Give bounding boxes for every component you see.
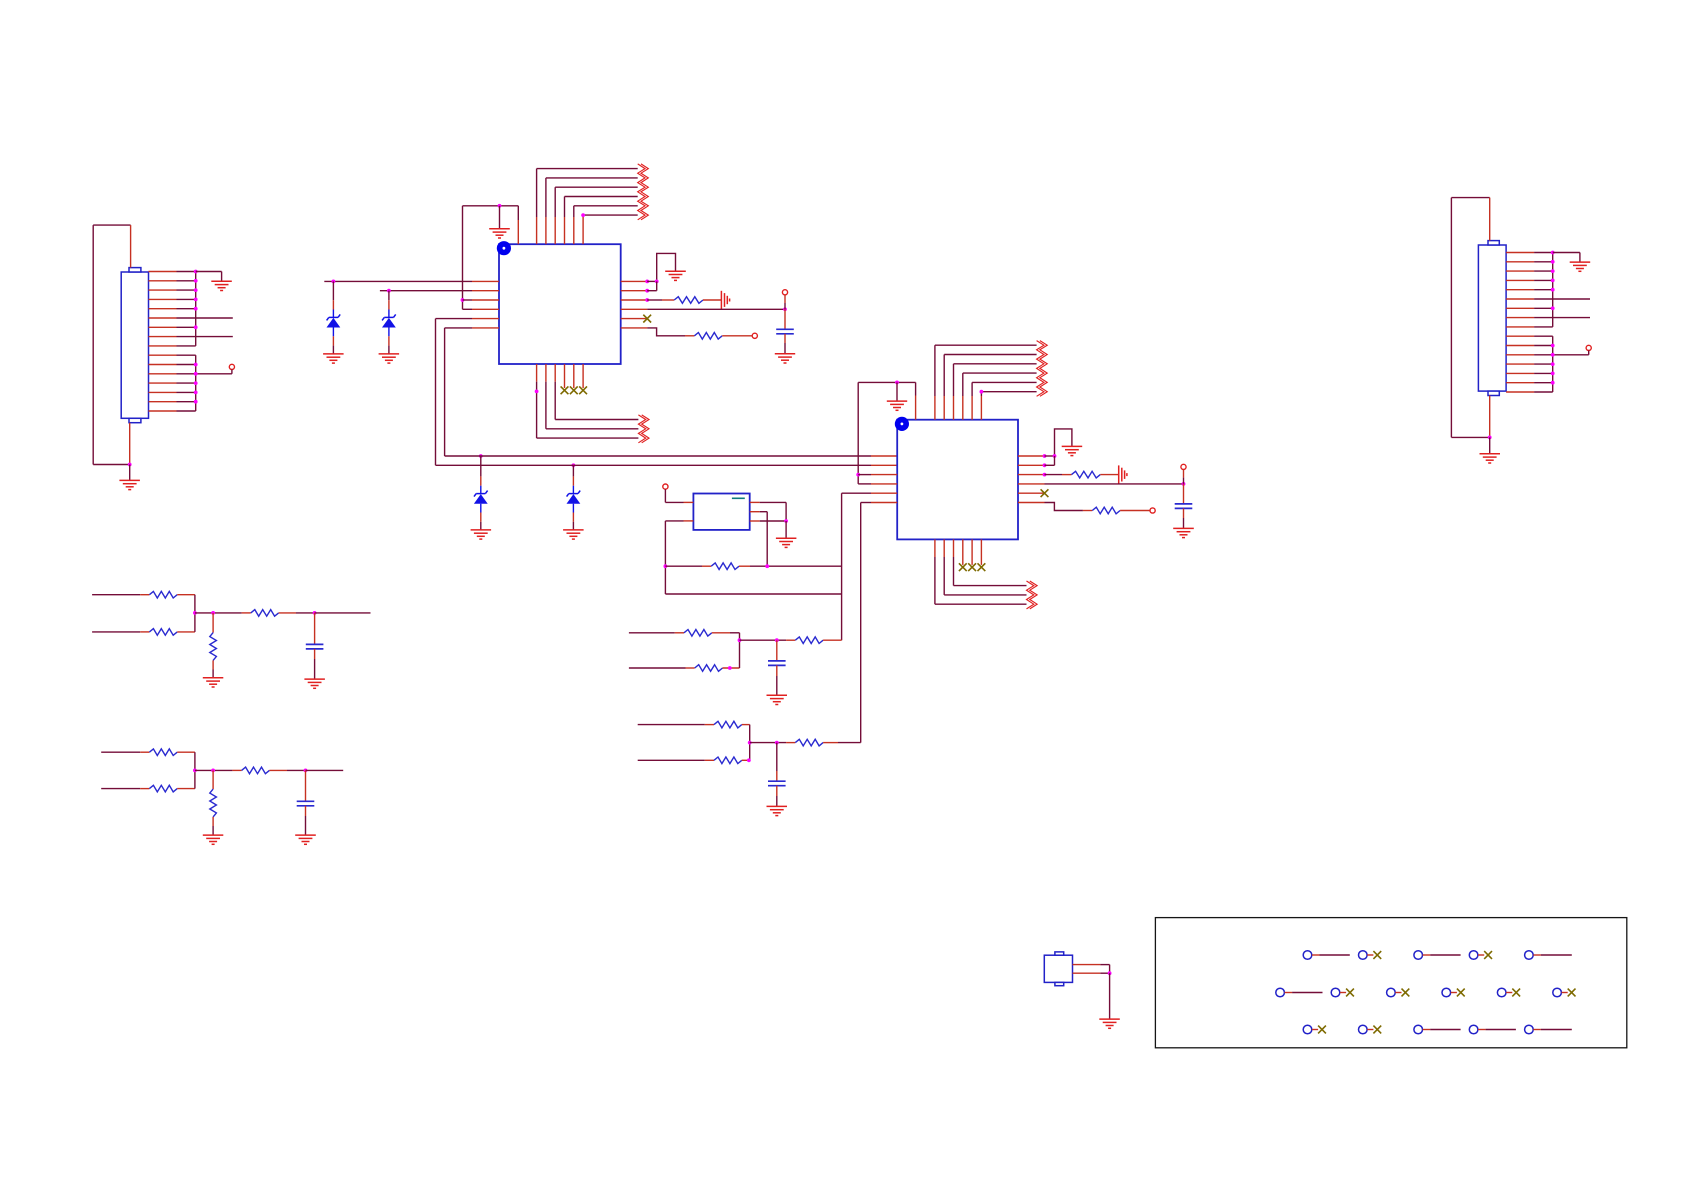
wire U2.R4 up [1183,470,1185,484]
no-connect TP9 [1451,989,1465,997]
node U2.R1 b [1053,454,1057,458]
pin J2.12 [1506,354,1534,356]
wire R2 to terminal [722,335,752,337]
pin U1 right3 [621,299,648,301]
wire C1 to ground [784,334,786,354]
wire J2.5 [1534,289,1553,291]
wire U2.R6 to R4 [1045,503,1093,511]
wire J2.4 [1534,279,1553,281]
pin U1 bottom5 [573,364,575,388]
testpoint TP3 [1414,951,1423,960]
node netC junction [193,611,197,615]
pin J2.16 [1506,391,1534,393]
pin U2 right2 [1018,464,1045,466]
pin U2 top7 wire [981,392,1036,420]
wire netD in1 [101,751,149,753]
pin J1.9 [149,345,177,347]
pin U2 bottom5 [971,539,973,565]
terminal U3 open circle [663,484,668,489]
wire D1 top [332,281,334,317]
pin J1.10 [149,354,177,356]
wire CB to ground [776,786,778,807]
wire U1.R4 up [784,295,786,309]
testpoint TP7 [1331,988,1340,997]
torn wire U1 top group [638,164,649,220]
wire J1.15 [177,401,196,403]
pin U2 right5 [1018,492,1045,494]
pin U4.2 [1073,972,1101,974]
node J1 group2 pin12 [194,372,198,376]
wire netC in1 [92,594,149,596]
capacitor CA [768,661,786,666]
no-connect U2 bottom4 [959,563,967,571]
pin U1 top7 wire [583,215,638,244]
wire bus lower [436,464,898,466]
wire R4 to terminal [1120,510,1150,512]
pin U1 left6 [472,327,499,329]
connector J2 body [1478,245,1506,391]
node D4 [572,463,576,467]
connector J1 top tab [129,268,141,272]
pin J1.15 [149,401,177,403]
wire RC1 out [177,595,195,613]
wire netA cap stem [776,640,778,661]
wire J2.1 [1534,252,1553,254]
wire J2.12 to test terminal [1534,354,1589,356]
IC U2 body [897,420,1018,540]
wire netB in1 [638,724,714,726]
resistor RC2 [149,629,177,636]
ground J1 pin1 [211,281,232,290]
earth U2.R3 sideways [1119,465,1127,484]
wire TP3-TP4 [1423,954,1461,956]
IC U1 body [499,244,621,364]
wire D4 bottom [572,504,574,530]
pin U1 left1 [472,280,499,282]
wire RA3 out [823,639,842,641]
testpoint TP12 [1303,1025,1312,1034]
wire U2.R1 to ground [1045,429,1072,456]
pin U1 left3 [472,299,499,301]
pin J1.3 [149,289,177,291]
pin U2 bottom4 [962,539,964,565]
wire TP16 out [1533,1029,1572,1031]
pin U2 bottom6 [980,539,982,565]
pin U2 right6 [1018,502,1045,504]
node U2.R4 [1182,482,1186,486]
zener diode D3 [474,491,488,504]
wire netC cap stem [314,613,316,645]
wire U1.L2 from zener D2 [380,290,472,292]
testpoint TP14 [1414,1025,1423,1034]
node U1 gnd [498,204,502,208]
wire U3.3 [760,502,786,521]
wire J2.6 stub [1534,298,1590,300]
wire RD4 top [212,770,214,789]
node J2 group2 pin13 [1551,362,1555,366]
zener diode D2 [382,314,396,327]
node U2 top wire corner [980,390,984,394]
wire RA2 out [723,640,740,668]
capacitor C1 [776,329,794,334]
node U2.R3 [1043,473,1047,477]
pin J1.12 [149,373,177,375]
wire U2.R2 [1045,456,1055,465]
component U4 body [1044,955,1072,982]
node netB cap tap [775,741,779,745]
node D3 [479,454,483,458]
pin J2.10 [1506,335,1534,337]
no-connect U1.R5 [643,315,651,323]
zener diode D1 [327,314,341,327]
pin J2.2 [1506,261,1534,263]
ground D3 [471,530,492,539]
zener diode D4 [567,491,581,504]
wire netC in2 [92,631,149,633]
resistor R2 [694,333,722,340]
wire U4.1 [1100,965,1109,974]
wire RC2 out [177,613,195,632]
node U1.R1 a [645,280,649,284]
terminal U2.R4 open circle [1181,464,1186,469]
node netC cap tap [313,611,317,615]
no-connect TP4 [1478,951,1492,959]
wire U3 gnd stem [785,521,787,538]
pin U3.5 bottom right [750,520,760,522]
wire R5 left [665,565,711,567]
testpoint TP16 [1525,1025,1534,1034]
node J2 shield junction [1488,436,1492,440]
wire U2.R4 down [1183,484,1185,504]
wire J1.9 [177,345,196,347]
wire U2.L4 [858,483,871,485]
ground C1 [775,354,795,363]
wire U2.L6 [861,503,871,743]
component U4 top tab [1055,952,1064,955]
pin U1 left2 [472,290,499,292]
wire D3 top [480,456,482,494]
pin U1 right1 [621,280,648,282]
torn wire U2 top group [1037,341,1048,397]
wire C2 to ground [1183,508,1185,528]
torn wire U1 bottom group [638,415,649,443]
wire J1 bus group2 [195,355,197,411]
torn wire U2 bottom group [1027,581,1038,609]
pin U2 top2 wire [935,345,1037,420]
no-connect U2 bottom6 [978,563,986,571]
capacitor CB [768,781,786,786]
resistor RA3 [795,637,823,644]
node J1 group1 pin2 [194,279,198,283]
node J2 group1 pin4 [1551,279,1555,283]
node netB resistor2 [747,758,751,762]
wire U2 gnd left drop [857,382,859,484]
wire RC3 out [279,612,315,614]
pin J1.1 [149,271,177,273]
pin J2.7 [1506,307,1534,309]
node netD junction [193,769,197,773]
pin U1 left5 [472,318,499,320]
resistor R4 [1092,507,1120,514]
wire netC out [315,612,371,614]
pin U3.4 mid right [750,511,760,513]
IC U1 pin1 mark [497,241,511,255]
node netA cap tap [775,638,779,642]
resistor RD2 [149,785,177,792]
pin U2 top6 wire [972,382,1037,419]
wire netA in2 [629,667,695,669]
wire CA to ground [776,665,778,695]
wire U3.2 bottom [665,593,841,595]
ground RC4 [203,678,224,687]
wire J1.16 [177,410,196,412]
ground CA [767,695,788,704]
wire J1.11 [177,364,196,366]
no-connect TP10 [1506,989,1520,997]
wire RB1 out [742,725,750,743]
node U1 bottom1 [535,390,539,394]
wire U1.R4 down [784,309,786,329]
wire D3 bottom [480,504,482,530]
capacitor CD [297,801,315,806]
pin U2 bottom3 wire [954,539,1027,585]
node J2 group2 pin11 [1551,344,1555,348]
pin J1.14 [149,391,177,393]
wire J2.3 [1534,270,1553,272]
wire U1.R3 to R1 [647,299,674,301]
wire J2.13 [1534,363,1553,365]
node J1 shield junction [128,463,132,467]
no-connect U1 bottom4 [561,386,569,394]
resistor RC4 [210,633,217,661]
no-connect TP2 [1367,951,1381,959]
ground D1 [323,354,344,363]
wire U3.1 [665,489,683,502]
wire netD cap stem [305,770,307,801]
wire R3 to earth [1100,474,1118,476]
no-connect U2 bottom5 [968,563,976,571]
wire U2.R4 [1045,483,1184,485]
pin J2.14 [1506,372,1534,374]
testpoint TP11 [1553,988,1562,997]
pin U1 top2 wire [537,169,638,245]
pin J1.16 [149,410,177,412]
test box outline [1155,918,1626,1048]
node J1 group1 pin1 [194,270,198,274]
wire TP6-TP7 [1285,992,1323,994]
wire RC4 top [212,613,214,633]
node J1 group2 pin13 [194,381,198,385]
ground C2 [1173,528,1194,537]
wire J2 ground stem [1489,437,1491,453]
wire J2.15 [1534,382,1553,384]
wire U1 gnd stem [499,206,501,229]
wire U1.L1 from zener D1 [324,280,472,282]
ground U1 right [665,271,686,280]
wire U1.R6 to R2 [647,328,694,336]
wire U3.2 down [665,521,683,594]
pin U1 right2 [621,290,648,292]
testpoint TP8 [1387,988,1396,997]
node J2 group2 pin15 [1551,381,1555,385]
node J2 group1 pin1 [1551,251,1555,255]
node netD shunt tap [211,769,215,773]
ground CB [767,806,788,815]
wire netA in1 [629,632,684,634]
wire RA1 out [712,633,740,640]
pin U2 top gnd [915,382,917,419]
resistor RD3 [242,767,270,774]
node D1 [332,280,336,284]
pin J2.1 [1506,252,1534,254]
wire D4 top [572,465,574,493]
node U2.R2 [1043,463,1047,467]
wire U1.R2 [647,281,657,290]
pin U1 top6 wire [574,206,638,244]
ground U3 [776,538,797,547]
pin U2 right3 [1018,474,1045,476]
pin J2 shield bottom stub [1489,396,1491,438]
pin U2 bottom1 wire [935,539,1027,604]
wire U3.5 [760,520,786,522]
pin U2 left3 [871,474,897,476]
wire D2 top [388,291,390,318]
capacitor CC [306,644,324,649]
terminal U1.R6 open circle [752,333,757,338]
IC U2 pin1 mark [895,417,909,431]
no-connect TP13 [1367,1026,1381,1034]
pin J1.6 [149,317,177,319]
pin J1.4 [149,298,177,300]
connector J2 bottom tab [1488,391,1499,395]
pin U2 right1 [1018,455,1045,457]
node J1 group2 pin14 [194,391,198,395]
wire J1.12 to test terminal [177,373,232,375]
pin J2.15 [1506,382,1534,384]
ground J1 shield [119,480,139,489]
wire U1.R1 to ground [647,253,675,281]
wire J1.8 stub [177,336,233,338]
terminal J1 pin12 open circle [229,364,234,369]
IC U3 mark [732,497,745,499]
ground J2 pin1 [1570,262,1591,271]
wire netC node [195,612,251,614]
wire RD2 out [177,770,195,788]
wire CC to ground [314,649,316,679]
wire U1 gnd left drop [462,206,464,309]
no-connect TP12 [1312,1026,1326,1034]
pin J2.8 [1506,317,1534,319]
wire J2.7 [1534,307,1553,309]
node J2 group1 pin2 [1551,260,1555,264]
no-connect TP7 [1340,989,1354,997]
pin J1.2 [149,280,177,282]
terminal U2.R6 open circle [1150,508,1155,513]
wire TP14-TP15 [1423,1029,1461,1031]
pin J1.11 [149,364,177,366]
pin J1.8 [149,336,177,338]
wire RD1 out [177,752,195,770]
node J2 group2 pin14 [1551,372,1555,376]
wire RD4 to ground [212,817,214,835]
wire J1.14 [177,391,196,393]
pin J2.11 [1506,345,1534,347]
ground U4 [1099,1019,1120,1028]
wire U1.L5 [436,319,473,466]
pin J1.7 [149,326,177,328]
node J2 group1 pin5 [1551,288,1555,292]
pin U1 bottom1 wire [537,364,639,438]
wire U4 ground stem [1109,973,1111,1019]
wire J2 bus group2 [1552,336,1554,392]
ground D4 [563,530,584,539]
wire J1.5 [177,308,196,310]
resistor RC3 [251,610,279,617]
wire J2.10 [1534,335,1553,337]
node J1 group1 pin4 [194,298,198,302]
pin J2.5 [1506,289,1534,291]
ground RD4 [203,835,224,844]
wire J2.2 [1534,261,1553,263]
no-connect U1 bottom6 [579,386,587,394]
wire U4.2 [1100,972,1109,974]
node U3 gnd [784,519,788,523]
testpoint TP15 [1469,1025,1478,1034]
pin U3.2 [684,520,694,522]
wire U3.4 [760,512,768,567]
resistor RB1 [714,721,742,728]
pin J2 shield top stub [1489,198,1491,241]
wire U2 gnd top [858,381,915,383]
wire netA node [740,639,796,641]
node U1.R4 [783,307,787,311]
wire U1.L4 [463,308,473,310]
node U1.R1 b [655,280,659,284]
terminal J2 pin12 open circle [1586,345,1591,350]
wire RB2 out [742,743,750,761]
pin U1 right4 [621,308,648,310]
pin J2.6 [1506,298,1534,300]
wire D2 bottom [388,328,390,354]
wire J1 bus group1 [195,272,197,346]
wire netB node [750,742,796,744]
node J2 group1 pin3 [1551,269,1555,273]
wire netD node [195,769,242,771]
wire J1 pin1 to ground [196,272,222,282]
wire J1 shield loop [93,225,130,464]
wire J1.6 stub [177,317,233,319]
resistor RD1 [149,749,177,756]
wire TP5 out [1533,954,1572,956]
resistor R3 [1072,471,1101,478]
wire U2 gnd stem [896,382,898,401]
wire U2.R3 to R3 [1045,474,1072,476]
wire J1.7 [177,326,196,328]
IC U3 body [693,494,749,530]
wire J2.11 [1534,345,1553,347]
wire J1.10 [177,354,196,356]
wire U1 gnd top [463,205,519,207]
no-connect U1 bottom5 [570,386,578,394]
pin U1 top3 wire [546,178,638,244]
connector J2 top tab [1488,241,1499,245]
node R5 right [765,564,769,568]
connector J1 bottom tab [129,418,141,422]
pin U3.1 [684,501,694,503]
wire J2.8 stub [1534,317,1590,319]
ground CD [295,835,316,844]
pin J1.13 [149,382,177,384]
